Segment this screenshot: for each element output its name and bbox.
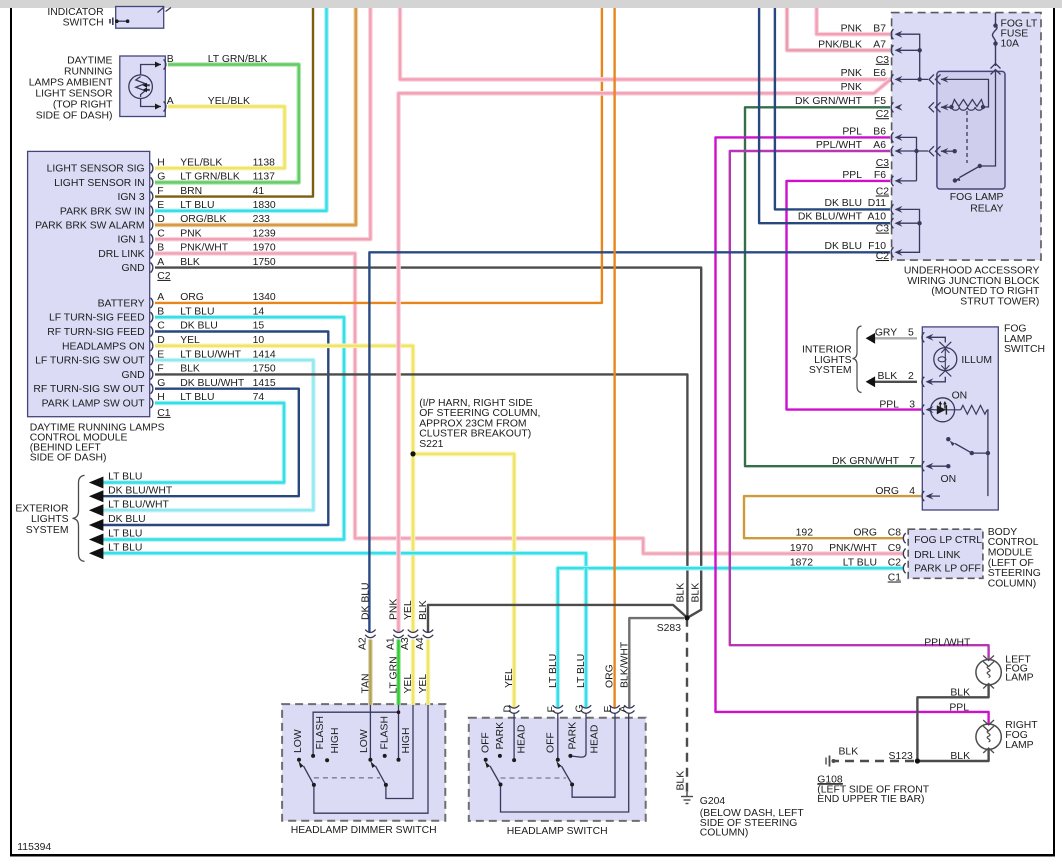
wire PNK/BLK A7 junction off-page top — [787, 8, 890, 50]
svg-text:EXTERIOR: EXTERIOR — [15, 504, 69, 515]
svg-text:A2: A2 — [357, 637, 368, 650]
svg-text:C3: C3 — [876, 224, 890, 235]
wire LT GRN/BLK 1137 sensor B to module G-C2 — [155, 65, 299, 183]
svg-text:ORG: ORG — [853, 528, 877, 539]
svg-text:RF TURN-SIG SW OUT: RF TURN-SIG SW OUT — [33, 384, 145, 395]
svg-text:SYSTEM: SYSTEM — [809, 365, 852, 376]
svg-text:PPL: PPL — [949, 703, 969, 714]
headlamp armature2 to E — [572, 713, 615, 797]
ground G108 — [818, 756, 844, 784]
svg-text:C2: C2 — [157, 271, 171, 282]
wire PPL/WHT A6 junction to left fog lamp — [730, 151, 989, 660]
wire YEL/BLK 1138 sensor A to module H-C2 — [155, 107, 285, 169]
svg-text:15: 15 — [253, 321, 265, 332]
svg-text:H: H — [157, 392, 165, 403]
svg-text:LIGHT SENSOR IN: LIGHT SENSOR IN — [54, 178, 144, 189]
dimmer armature2 to A3 — [386, 705, 413, 799]
svg-text:LT GRN/BLK: LT GRN/BLK — [208, 54, 268, 65]
svg-text:LT GRN: LT GRN — [389, 656, 400, 693]
relay pin chevrons — [929, 64, 1001, 157]
svg-text:LT BLU: LT BLU — [548, 654, 559, 688]
svg-text:STRUT TOWER): STRUT TOWER) — [960, 297, 1039, 308]
wire PPL B6 junction to right fog lamp — [716, 137, 989, 724]
junction splice dots — [918, 48, 922, 52]
wire PNK/WHT 1970 module B-C2 to BCM C9 — [155, 253, 903, 553]
sensor pin B arc — [164, 60, 166, 70]
wire PNK B7 junction off-page top — [817, 8, 890, 34]
wire YEL S221 branch to headlamp switch D — [413, 454, 514, 709]
dimmer connector arcs — [365, 630, 634, 714]
fog switch armature blade — [955, 444, 972, 454]
svg-text:ON: ON — [941, 474, 957, 485]
svg-text:BRN: BRN — [180, 186, 202, 197]
dimmer contact dots — [297, 710, 401, 787]
svg-text:LT BLU: LT BLU — [180, 306, 214, 317]
left fog lamp — [976, 660, 1001, 685]
fog switch ON LED — [931, 398, 955, 422]
wire BLK S123 to ground G108 (dashed) — [833, 760, 914, 762]
svg-text:YEL: YEL — [403, 674, 414, 694]
svg-text:PNK/WHT: PNK/WHT — [180, 243, 229, 254]
svg-text:LF TURN-SIG SW OUT: LF TURN-SIG SW OUT — [35, 356, 145, 367]
svg-text:D: D — [503, 705, 514, 713]
svg-text:A4: A4 — [415, 637, 426, 650]
svg-text:PPL/WHT: PPL/WHT — [816, 140, 863, 151]
wire LT BLU exterior arrow 6 to BCM branch — [99, 553, 586, 568]
headlamp armature1 to A — [501, 713, 629, 812]
svg-text:DK BLU/WHT: DK BLU/WHT — [108, 485, 173, 496]
svg-text:DRL LINK: DRL LINK — [914, 550, 960, 561]
svg-text:OFF: OFF — [480, 732, 491, 753]
svg-text:SIDE OF DASH): SIDE OF DASH) — [30, 453, 107, 464]
svg-text:LIGHT SENSOR SIG: LIGHT SENSOR SIG — [47, 164, 145, 175]
svg-text:PPL: PPL — [879, 399, 899, 410]
svg-text:C2: C2 — [876, 251, 890, 262]
svg-text:F: F — [157, 364, 163, 375]
fog lamp switch box — [922, 327, 998, 510]
svg-text:1750: 1750 — [253, 364, 276, 375]
svg-text:3: 3 — [909, 399, 915, 410]
svg-text:PARK: PARK — [568, 722, 579, 750]
svg-text:GRY: GRY — [875, 327, 897, 338]
svg-text:PNK: PNK — [389, 599, 400, 620]
svg-text:1137: 1137 — [253, 172, 276, 183]
svg-text:PARK LAMP SW OUT: PARK LAMP SW OUT — [42, 399, 146, 410]
svg-text:PARK: PARK — [495, 722, 506, 750]
indicator switch internal — [117, 20, 128, 22]
wire DK GRN/WHT F5 junction to fog switch 7 — [745, 107, 921, 466]
wire LT GRN dimmer A1 lower — [396, 640, 401, 706]
svg-text:2: 2 — [908, 371, 914, 382]
svg-text:B: B — [167, 54, 174, 65]
rotated labels — [293, 582, 702, 790]
svg-text:COLUMN): COLUMN) — [988, 578, 1036, 589]
wire GRY fog switch 5 to interior lights — [869, 337, 917, 339]
svg-text:HIGH: HIGH — [401, 728, 412, 754]
svg-text:BLK: BLK — [691, 583, 702, 603]
svg-text:ILLUM: ILLUM — [961, 355, 992, 366]
svg-text:S221: S221 — [419, 439, 443, 450]
wire BLK/WHT headlamp A to S283 — [629, 618, 684, 708]
wire LT BLU/WHT 1414 module E-C1 to exterior arrow 3 — [99, 360, 313, 510]
svg-text:10A: 10A — [1001, 38, 1020, 49]
relay coil — [952, 100, 984, 108]
svg-text:C9: C9 — [888, 543, 902, 554]
svg-text:RELAY: RELAY — [970, 203, 1003, 214]
BCM pin arcs — [903, 533, 905, 573]
svg-text:YEL: YEL — [504, 668, 515, 688]
svg-text:HEADLAMP DIMMER SWITCH: HEADLAMP DIMMER SWITCH — [291, 825, 437, 836]
svg-text:A6: A6 — [873, 140, 886, 151]
svg-text:GND: GND — [122, 370, 145, 381]
dimmer armature blades — [304, 766, 386, 785]
svg-text:SYSTEM: SYSTEM — [26, 525, 69, 536]
wire ORG 1340 module A-C1 off-page top — [155, 8, 602, 303]
svg-text:FOG LAMP: FOG LAMP — [950, 192, 1004, 203]
wire ORG fog switch 4 to BCM C8 — [744, 496, 921, 538]
svg-text:E: E — [603, 706, 614, 713]
wire DK BLU/WHT A10 junction off-page top — [759, 8, 890, 223]
svg-text:DK BLU: DK BLU — [824, 198, 862, 209]
headlamp contact dots — [484, 754, 574, 787]
splice S221 — [410, 451, 415, 456]
svg-text:HEAD: HEAD — [590, 725, 601, 754]
wire LT BLU 1830 module E-C2 off-page top — [155, 8, 327, 211]
svg-text:BLK: BLK — [950, 751, 970, 762]
svg-text:COLUMN): COLUMN) — [700, 827, 749, 838]
light sensor internal leads — [141, 65, 161, 76]
wire DK BLU F10 junction to dimmer A2 — [369, 252, 890, 632]
svg-text:E: E — [157, 349, 164, 360]
svg-text:IGN 3: IGN 3 — [117, 192, 144, 203]
sensor pin arrows — [155, 62, 161, 110]
svg-text:YEL: YEL — [418, 674, 429, 694]
svg-text:DK BLU: DK BLU — [108, 514, 146, 525]
svg-text:INDICATOR: INDICATOR — [47, 7, 104, 18]
wire BLK 1750 module F-C1 to splice S283 — [155, 374, 687, 617]
svg-text:1239: 1239 — [253, 228, 276, 239]
svg-text:LT BLU: LT BLU — [108, 529, 142, 540]
svg-text:1415: 1415 — [253, 378, 276, 389]
svg-text:DK GRN/WHT: DK GRN/WHT — [832, 456, 900, 467]
svg-text:C: C — [157, 321, 165, 332]
headlamp G lead hook to PARK2 — [572, 713, 586, 757]
svg-text:BLK: BLK — [675, 583, 686, 603]
wire TAN dimmer A2 lower — [368, 640, 373, 706]
svg-text:14: 14 — [253, 306, 265, 317]
wire BRN 41 module F-C2 off-page top — [155, 8, 313, 197]
svg-text:A: A — [157, 292, 164, 303]
junction block internal B7-A7-E6 bus — [897, 34, 928, 79]
wire BLK dimmer A4 to S283 — [428, 605, 687, 633]
svg-text:HEAD: HEAD — [516, 725, 527, 754]
wire PNK 1239 module C-C2 off-page top — [155, 8, 370, 239]
relay armature dots and arrow — [978, 164, 982, 168]
svg-text:1138: 1138 — [253, 157, 276, 168]
underhood junction block (dashed) — [892, 13, 1041, 261]
svg-text:PPL: PPL — [842, 170, 862, 181]
relay fixed contact from A6 — [941, 150, 955, 152]
svg-text:LT BLU: LT BLU — [108, 542, 142, 553]
svg-text:FOG LP CTRL: FOG LP CTRL — [914, 535, 982, 546]
svg-text:DK BLU: DK BLU — [824, 241, 862, 252]
svg-text:YEL: YEL — [403, 600, 414, 620]
svg-text:BLK: BLK — [180, 364, 200, 375]
dimmer LT GRN bus to FLASH1 and HIGH2 — [313, 705, 398, 760]
svg-text:1830: 1830 — [253, 200, 276, 211]
svg-text:RF TURN-SIG FEED: RF TURN-SIG FEED — [47, 327, 144, 338]
svg-text:OFF: OFF — [545, 732, 556, 753]
svg-text:BLK: BLK — [878, 371, 898, 382]
fog switch pin3 to LED — [927, 409, 934, 411]
svg-text:1340: 1340 — [253, 292, 276, 303]
wire LT BLU branch to headlamp switch G — [584, 568, 589, 708]
svg-text:YEL: YEL — [180, 335, 200, 346]
svg-text:4: 4 — [909, 486, 915, 497]
svg-text:S123: S123 — [889, 751, 913, 762]
svg-text:C2: C2 — [876, 109, 890, 120]
svg-text:B: B — [157, 243, 164, 254]
svg-text:FLASH: FLASH — [315, 716, 326, 750]
svg-text:BLK/WHT: BLK/WHT — [619, 641, 630, 688]
svg-text:D11: D11 — [868, 198, 887, 209]
svg-text:C: C — [157, 228, 165, 239]
svg-text:C1: C1 — [157, 408, 171, 419]
wire BLK left fog lamp to S123 — [917, 686, 988, 762]
svg-text:B6: B6 — [873, 127, 886, 138]
headlamp dimmer switch box (dashed) — [282, 704, 445, 821]
svg-text:DAYTIME: DAYTIME — [67, 56, 112, 67]
junction block internal B6-A6-F6 bus — [897, 137, 928, 181]
svg-text:1872: 1872 — [790, 558, 813, 569]
fuse connector chevrons at relay top — [991, 64, 1001, 75]
fog switch pin arcs + arrows — [922, 332, 924, 501]
svg-text:ORG: ORG — [180, 292, 204, 303]
svg-text:C3: C3 — [876, 158, 890, 169]
fuse FOG LT 10A — [992, 13, 997, 66]
svg-text:E: E — [157, 200, 164, 211]
svg-text:DK BLU/WHT: DK BLU/WHT — [180, 378, 245, 389]
wire DK BLU 15 module C-C1 to exterior lights arrow 4 — [99, 332, 328, 526]
svg-text:C3: C3 — [876, 55, 890, 66]
svg-text:A10: A10 — [868, 212, 887, 223]
svg-text:HEADLAMP SWITCH: HEADLAMP SWITCH — [507, 826, 608, 837]
headlamp connector arcs — [509, 705, 519, 713]
svg-text:LF TURN-SIG FEED: LF TURN-SIG FEED — [49, 313, 145, 324]
svg-text:A7: A7 — [873, 40, 886, 51]
interior lights brace — [853, 326, 862, 393]
svg-text:END UPPER TIE BAR): END UPPER TIE BAR) — [817, 794, 924, 805]
svg-text:1414: 1414 — [253, 349, 276, 360]
svg-text:C2: C2 — [876, 187, 890, 198]
fog switch pin4 lead — [927, 495, 940, 497]
interior lights arrows — [866, 333, 876, 344]
svg-text:LT BLU/WHT: LT BLU/WHT — [108, 499, 169, 510]
svg-text:74: 74 — [253, 392, 265, 403]
svg-text:BLK: BLK — [675, 771, 686, 791]
svg-text:DK BLU: DK BLU — [180, 321, 218, 332]
splice S283 — [684, 615, 689, 620]
svg-text:BLK: BLK — [418, 600, 429, 620]
svg-text:E6: E6 — [873, 68, 886, 79]
svg-text:1970: 1970 — [790, 543, 813, 554]
headlamp F lead to OFF2 — [557, 713, 559, 760]
junction block internal D11-A10-F10 bus — [896, 209, 920, 252]
fog lamp relay box — [937, 71, 1005, 189]
svg-text:H: H — [157, 157, 165, 168]
svg-text:115394: 115394 — [17, 842, 51, 853]
wire DK BLU/WHT 1415 module G-C1 to exterior arrow 2 — [99, 389, 299, 497]
svg-text:SWITCH: SWITCH — [1004, 344, 1045, 355]
wire DK BLU D11 junction off-page top — [775, 8, 890, 209]
wire ORG/BLK 233 module D-C2 off-page top — [155, 8, 356, 225]
svg-text:BLK: BLK — [180, 257, 200, 268]
svg-text:DK BLU: DK BLU — [360, 582, 371, 620]
svg-text:LIGHT SENSOR: LIGHT SENSOR — [35, 89, 113, 100]
svg-text:LAMP: LAMP — [1005, 740, 1033, 751]
svg-text:IGN 1: IGN 1 — [117, 235, 144, 246]
svg-text:192: 192 — [796, 528, 814, 539]
svg-text:C2: C2 — [888, 558, 902, 569]
svg-text:LIGHTS: LIGHTS — [31, 514, 69, 525]
junction block pin arcs + arrows — [891, 29, 893, 257]
svg-text:LT BLU: LT BLU — [576, 654, 587, 688]
wire BLK 1750 module A-C2 to splice S283 — [155, 268, 701, 618]
svg-text:LAMPS AMBIENT: LAMPS AMBIENT — [29, 78, 113, 89]
svg-text:LT BLU: LT BLU — [108, 472, 142, 483]
dimmer mechanical link dashed — [314, 777, 380, 779]
fog switch resistor — [961, 405, 987, 414]
sensor pin A arc — [164, 102, 166, 112]
wire PNK off-page to junction E6 — [400, 8, 890, 79]
svg-text:A3: A3 — [400, 637, 411, 650]
page border bottom — [10, 854, 1055, 857]
svg-text:5: 5 — [908, 327, 914, 338]
svg-text:PNK: PNK — [841, 23, 862, 34]
svg-text:F6: F6 — [874, 170, 886, 181]
svg-text:233: 233 — [253, 214, 271, 225]
svg-text:G: G — [575, 704, 586, 712]
svg-text:41: 41 — [253, 186, 265, 197]
svg-text:D: D — [157, 214, 165, 225]
relay F5 lead to coil — [941, 106, 952, 108]
svg-text:ON: ON — [952, 390, 968, 401]
svg-text:YEL/BLK: YEL/BLK — [180, 157, 222, 168]
DRL control module box — [28, 151, 150, 416]
svg-text:SWITCH: SWITCH — [63, 18, 104, 29]
svg-text:ORG: ORG — [875, 486, 899, 497]
indicator switch box — [116, 7, 164, 29]
svg-text:PARK LP OFF: PARK LP OFF — [914, 563, 981, 574]
relay armature common to fuse — [980, 72, 996, 166]
DRL module pin arcs C1 — [151, 298, 153, 308]
svg-text:LT BLU: LT BLU — [843, 558, 877, 569]
svg-text:GND: GND — [122, 263, 145, 274]
relay armature blade — [960, 166, 980, 178]
svg-text:PNK/BLK: PNK/BLK — [818, 40, 862, 51]
wire YEL dimmer A4 lower — [426, 640, 431, 706]
headlamp armature blades — [490, 766, 572, 785]
svg-text:A1: A1 — [386, 637, 397, 650]
svg-text:HEADLAMPS ON: HEADLAMPS ON — [62, 341, 145, 352]
indicator switch stub symbol — [110, 18, 113, 26]
dimmer armature1 to A4 — [314, 705, 428, 813]
svg-text:YEL/BLK: YEL/BLK — [208, 96, 250, 107]
svg-text:PNK: PNK — [841, 68, 862, 79]
wire LT BLU 1872 BCM C2 to headlamp switch F — [558, 568, 903, 708]
headlamp D lead to HEAD1 — [513, 713, 515, 760]
svg-text:PNK: PNK — [841, 82, 862, 93]
fog switch armature row — [972, 452, 988, 454]
svg-text:F5: F5 — [874, 96, 886, 107]
relay E6 lead to coil — [941, 79, 989, 107]
svg-text:S283: S283 — [657, 623, 681, 634]
svg-text:1750: 1750 — [253, 257, 276, 268]
wire PPL F6 junction to fog switch 3 — [787, 181, 922, 410]
fog switch ILLUM bulb to pin2 — [927, 377, 945, 382]
svg-text:DK GRN/WHT: DK GRN/WHT — [795, 96, 863, 107]
svg-text:PNK/WHT: PNK/WHT — [829, 543, 878, 554]
wire BLK S283 to ground G204 (dashed) — [686, 618, 688, 792]
svg-text:F: F — [546, 706, 557, 712]
svg-text:LAMP: LAMP — [1005, 673, 1033, 684]
wire LT BLU 74 module H-C1 to exterior arrow 1 — [99, 403, 284, 483]
svg-text:PNK: PNK — [180, 228, 201, 239]
svg-text:BLK: BLK — [839, 746, 859, 757]
page border left — [10, 8, 12, 856]
svg-text:BATTERY: BATTERY — [98, 298, 145, 309]
fog switch pin7 lead — [927, 465, 948, 467]
ILLUM bulb — [934, 348, 957, 371]
svg-text:B7: B7 — [873, 23, 886, 34]
svg-text:D: D — [157, 335, 165, 346]
DRL module pin arcs C2 — [151, 163, 153, 408]
svg-text:ORG: ORG — [605, 664, 616, 688]
fog switch LED to resistor to vertical — [986, 410, 989, 496]
wire YEL 10 module D-C1 to dimmer A3 via S221 — [155, 346, 413, 633]
body control module box (dashed) — [908, 529, 983, 578]
svg-text:10: 10 — [253, 335, 265, 346]
svg-text:LOW: LOW — [293, 729, 304, 753]
wire LT BLU 14 module B-C1 to exterior lights arrow 5 — [99, 317, 344, 539]
right fog lamp — [976, 724, 1001, 749]
light sensor photocell symbol — [129, 75, 153, 99]
headlamp mechanical link dashed — [501, 777, 567, 779]
svg-text:SIDE OF DASH): SIDE OF DASH) — [36, 111, 113, 122]
headlamp switch box (dashed) — [469, 718, 646, 821]
svg-text:B: B — [157, 306, 164, 317]
svg-text:DK BLU/WHT: DK BLU/WHT — [798, 212, 863, 223]
svg-text:LT BLU: LT BLU — [180, 200, 214, 211]
splice S123 — [915, 758, 920, 763]
svg-text:(TOP RIGHT: (TOP RIGHT — [53, 100, 113, 111]
svg-text:PARK BRK SW ALARM: PARK BRK SW ALARM — [35, 221, 145, 232]
svg-text:PARK BRK SW IN: PARK BRK SW IN — [60, 206, 145, 217]
svg-text:A: A — [167, 96, 174, 107]
fog switch armature dots — [970, 451, 974, 455]
svg-text:F: F — [157, 186, 163, 197]
svg-text:BLK: BLK — [950, 687, 970, 698]
svg-text:ORG/BLK: ORG/BLK — [180, 214, 226, 225]
svg-text:TAN: TAN — [360, 673, 371, 693]
wire YEL dimmer A3 lower — [411, 640, 416, 706]
svg-text:LOW: LOW — [359, 729, 370, 753]
ground G204 — [681, 792, 693, 804]
top gray bar — [0, 0, 1062, 8]
fog switch pin5 to ILLUM bulb — [927, 337, 945, 342]
wire BLK right fog lamp to S123 — [917, 750, 988, 762]
svg-text:LT GRN/BLK: LT GRN/BLK — [180, 172, 240, 183]
